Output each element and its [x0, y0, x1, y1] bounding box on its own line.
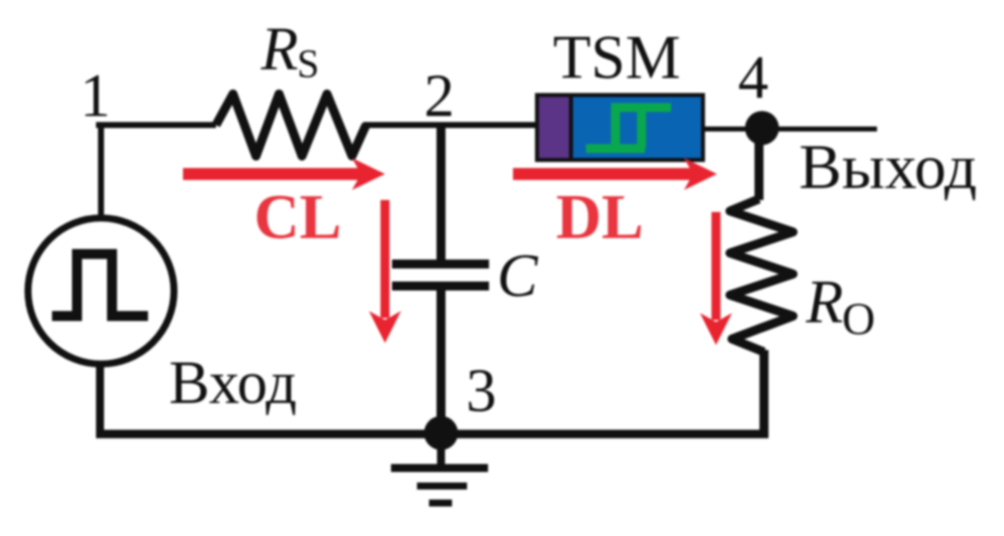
wire: TSM to output end (through node 4): [703, 127, 877, 132]
wire: bottom rail: [96, 430, 769, 439]
wire: resistor RO down to bottom rail: [760, 350, 769, 434]
svg-text:CL: CL: [254, 182, 342, 252]
wire: node 4 down to resistor RO: [755, 140, 764, 200]
wire: capacitor bottom to node 3: [437, 289, 446, 432]
node 3 junction dot: [424, 416, 458, 450]
wire: node 2 vertical down to capacitor: [437, 125, 446, 261]
ground stub: [437, 433, 445, 466]
svg-text:1: 1: [80, 63, 111, 130]
ground symbol bar 3: [429, 500, 452, 507]
ground symbol bar 2: [417, 483, 467, 490]
svg-text:Вход: Вход: [169, 350, 297, 417]
svg-text:2: 2: [424, 63, 455, 130]
pulse generator V1: [28, 218, 174, 364]
resistor RS zigzag: [216, 94, 366, 156]
TSM memristor body outline: [537, 95, 703, 160]
svg-text:4: 4: [738, 45, 769, 112]
capacitor C bottom plate: [392, 282, 489, 291]
svg-text:R: R: [260, 16, 298, 83]
TSM purple electrode section: [539, 97, 569, 158]
pulse symbol inside source: [52, 254, 148, 316]
svg-text:TSM: TSM: [553, 24, 680, 92]
node 4 junction dot: [745, 111, 779, 145]
wire: top left from node 1 to resistor RS: [96, 122, 216, 128]
red arrow DL vertical down: [712, 212, 721, 320]
svg-text:DL: DL: [556, 182, 644, 252]
red arrow DL horizontal: [513, 168, 695, 180]
resistor RO zigzag: [730, 199, 793, 352]
red arrow CL horizontal: [183, 168, 363, 180]
svg-text:O: O: [842, 293, 875, 344]
wire: resistor RS to TSM (through node 2): [363, 122, 537, 128]
capacitor C top plate: [392, 260, 489, 269]
ground symbol bar 1: [391, 464, 488, 472]
TSM divider: [569, 97, 573, 158]
svg-text:3: 3: [466, 358, 497, 425]
TSM green hysteresis curve: [586, 103, 671, 152]
red arrow CL vertical down: [381, 200, 390, 318]
svg-text:R: R: [805, 269, 843, 336]
wire: left vertical from node 1 down to pulse source: [98, 122, 104, 219]
svg-text:S: S: [297, 41, 319, 86]
wire: from pulse source bottom to bottom rail: [96, 364, 104, 434]
svg-text:C: C: [497, 243, 539, 310]
svg-text:Выход: Выход: [799, 131, 977, 202]
